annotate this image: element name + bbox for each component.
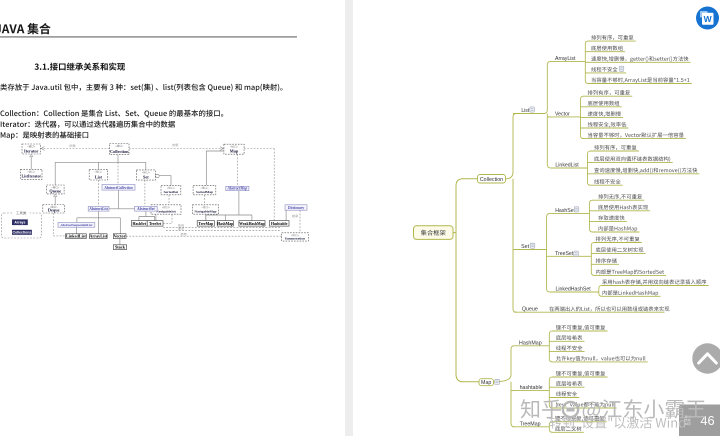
leaf 存取速度快: [598, 215, 624, 220]
page gutter: [345, 0, 353, 436]
svg-text:TreeSet: TreeSet: [149, 222, 162, 226]
edge Vector-Stack: [119, 239, 121, 245]
edge Queue-Deque: [54, 197, 56, 205]
UML abstract class Dictionary: [285, 205, 307, 210]
edge Dictionary..Enumeration dashed: [299, 210, 301, 233]
leaf 速度快,增删慢，gett: [591, 56, 688, 62]
UML interface ListIterator: [21, 169, 42, 179]
leaf 底层使用数组: [588, 101, 620, 106]
svg-text:NavigableMap: NavigableMap: [195, 210, 217, 214]
svg-text:WeakHashMap: WeakHashMap: [239, 222, 264, 226]
UML class WeakHashMap: [239, 221, 265, 227]
svg-text:HashSet: HashSet: [555, 208, 575, 214]
List children connector: [544, 61, 551, 113]
UML abstract class AbstractMap: [226, 186, 249, 190]
svg-text:Enumeration: Enumeration: [285, 237, 305, 241]
leaf 线程不安全: [591, 67, 617, 72]
UML abstract class AbstractList: [88, 206, 109, 211]
svg-text:TreeMap: TreeMap: [198, 222, 213, 226]
svg-text:Queue: Queue: [522, 307, 538, 313]
node Vector: [548, 116, 581, 118]
svg-text:List: List: [521, 108, 529, 114]
svg-text:NavigableSet: NavigableSet: [156, 210, 176, 214]
body line Map: [1, 131, 88, 139]
svg-text:TreeSet: TreeSet: [555, 251, 574, 257]
leaf key、value都不能: [556, 402, 614, 408]
svg-text:Dictionary: Dictionary: [287, 206, 305, 210]
svg-text:Vector: Vector: [555, 111, 570, 117]
svg-text:Set: Set: [521, 244, 529, 250]
UML class TreeMap: [197, 221, 214, 227]
UML legend box: [1, 213, 41, 238]
leaf 采用hash表存储,并用: [602, 279, 706, 284]
svg-text:HashMap: HashMap: [217, 222, 233, 226]
edge Collection..AbstractCollection dashed: [117, 162, 119, 184]
leaf 线程不安全: [556, 345, 582, 350]
UML class HashMap: [217, 221, 233, 227]
page number box: [679, 405, 720, 436]
UML interface Set: [136, 170, 155, 180]
edge Collection..Iterator dashed dependency: [41, 148, 110, 150]
leaf 键不可重复,值可重复: [556, 325, 605, 330]
AbstractMap children bus: [238, 191, 240, 215]
leaf 底层哈希表: [556, 335, 582, 340]
leaf 底层使用二叉树实现: [596, 247, 644, 252]
Set children connector: [547, 213, 551, 249]
edge SortedMap..NavigableMap dashed: [204, 195, 206, 205]
edge Map..AbstractMap dashed: [237, 154, 239, 186]
leaf 底层二叉树: [555, 426, 581, 431]
UML interface Collection: [110, 144, 130, 155]
svg-text:SortedMap: SortedMap: [196, 190, 213, 194]
windows activation watermark: [550, 417, 685, 429]
edge NavigableSet-TreeSet: [155, 214, 157, 220]
leaf 查询速度慢,增删快,ad: [594, 168, 697, 174]
svg-text:SortedSet: SortedSet: [164, 190, 179, 194]
UML abstract class AbstractSequentialList: [58, 223, 95, 228]
leaf 内部是TreeMap的S: [596, 269, 664, 275]
edge List..AbstractList dashed: [97, 180, 99, 206]
svg-text:LinkedHashSet: LinkedHashSet: [556, 287, 592, 293]
TreeMap leaves: [549, 422, 552, 433]
node List: [513, 113, 545, 115]
leaf 排列有序，可重复: [594, 145, 636, 150]
leaf 线程安全: [556, 391, 577, 396]
svg-text:Collections: Collections: [13, 231, 32, 235]
svg-text:LinkedList: LinkedList: [555, 162, 579, 168]
leaf 底层使用双向循环链表数据: [594, 156, 670, 162]
HashMap leaves: [549, 331, 552, 362]
AbstractCollection to AbstractList/AbstractSet: [117, 190, 119, 209]
body line Iterator: [1, 121, 175, 128]
svg-text:Stack: Stack: [115, 244, 126, 249]
svg-text:ListIterator: ListIterator: [21, 175, 41, 179]
leaf 当容量不够时，Vecto: [588, 133, 684, 138]
UML class Stack: [113, 245, 126, 250]
node hashtable: [513, 390, 549, 392]
node TreeSet: [550, 255, 591, 257]
legend Collections: [12, 230, 32, 235]
leaf 底层使用Hash表实现: [598, 205, 648, 210]
UML interface Enumeration: [282, 233, 309, 241]
UML interface Deque: [43, 205, 65, 214]
svg-text:Vector: Vector: [114, 233, 126, 238]
Set lollipop to SortedSet: [156, 174, 159, 177]
edge Map-SortedMap: [206, 151, 224, 185]
edge Map..Hashtable dashed: [244, 148, 274, 150]
UML abstract class AbstractSet: [135, 206, 158, 211]
Collection children bus: [117, 155, 119, 163]
UML interface Queue: [47, 185, 65, 194]
zhihu watermark: [521, 399, 561, 418]
leaf 允许key值为null，: [556, 356, 645, 362]
leaf 内部是HashMap: [599, 226, 638, 232]
edge AbstractSequentialList-LinkedList: [75, 227, 77, 234]
Map children connector: [494, 346, 515, 382]
svg-text:Map: Map: [481, 380, 491, 386]
node LinkedList: [551, 167, 588, 169]
UML interface NavigableMap: [193, 205, 219, 214]
leaf 线程不安全: [594, 179, 620, 184]
UML class Vector: [113, 234, 126, 239]
HashSet leaves: [590, 200, 593, 232]
leaf 排列有序，可重复: [588, 90, 630, 95]
UML class LinkedList: [66, 234, 87, 239]
document title: [0, 23, 51, 34]
svg-text:LinkedList: LinkedList: [66, 233, 86, 238]
UML class Hashtable: [269, 221, 289, 227]
node HashMap: [513, 345, 549, 347]
edge Map..Collection dashed dependency: [129, 148, 224, 150]
node HashSet: [550, 212, 590, 214]
svg-text:Queue: Queue: [49, 188, 61, 193]
edge Dictionary-Hashtable: [285, 210, 287, 220]
title underline: [0, 36, 297, 38]
leaf 键不可重复,值可重复: [555, 416, 604, 421]
edge SortedSet..NavigableSet dashed: [168, 195, 170, 205]
AbstractSet children bus: [145, 211, 147, 216]
usage dashed lines to Enumeration: [163, 226, 281, 228]
svg-text:Iterator: Iterator: [24, 148, 39, 153]
leaf 排列无序,不可重复: [598, 194, 642, 199]
svg-text:TreeMap: TreeMap: [520, 421, 541, 427]
svg-text:HashMap: HashMap: [519, 340, 542, 346]
svg-text:W: W: [704, 14, 713, 24]
section heading: [35, 63, 126, 71]
LinkedList leaves: [588, 151, 591, 185]
legend Arrays: [12, 219, 28, 225]
UML interface SortedSet: [161, 185, 181, 194]
node ArrayList: [551, 60, 586, 62]
leaf 速度快,增删慢: [588, 111, 621, 116]
svg-text:List: List: [95, 174, 103, 179]
UML class ArrayList: [90, 234, 108, 239]
edge TreeSet..NavigableSet hook dashed: [163, 214, 172, 223]
node Map box: [479, 379, 494, 386]
edge Iterator-ListIterator: [30, 157, 32, 169]
node Set: [514, 249, 547, 251]
Collection children connector: [506, 114, 517, 179]
edge Deque..LinkedList dashed: [54, 213, 66, 236]
svg-text:AbstractCollection: AbstractCollection: [103, 186, 132, 190]
body line Collection: [0, 110, 223, 118]
node Queue + leaf: [514, 311, 665, 313]
UML interface Map: [224, 144, 244, 154]
leaf 排列有序，可重复: [591, 35, 633, 40]
Vector leaves: [581, 96, 584, 138]
svg-text:ArrayList: ArrayList: [555, 56, 576, 62]
UML class TreeSet: [147, 221, 163, 227]
scroll-to-top button: [692, 343, 720, 373]
leaf 排列无序,不可重复: [596, 236, 640, 241]
UML class HashSet: [131, 221, 147, 227]
svg-text:hashtable: hashtable: [520, 385, 543, 391]
root node 集合框架: [414, 226, 454, 240]
UML interface NavigableSet: [151, 205, 181, 214]
UML interface SortedMap: [193, 185, 216, 194]
svg-text:ArrayList: ArrayList: [89, 233, 108, 238]
leaf 排序存储: [596, 258, 617, 263]
LinkedHashSet leaves: [599, 286, 602, 297]
body paragraph 1: [0, 84, 282, 92]
hashtable leaves: [549, 377, 552, 408]
AbstractList children bus: [98, 211, 100, 218]
node TreeMap: [513, 426, 549, 428]
svg-text:Hashtable: Hashtable: [271, 222, 288, 226]
svg-text:46: 46: [700, 413, 714, 428]
UML interface List: [89, 169, 107, 180]
leaf 底层使用数组: [591, 46, 623, 51]
svg-text:AbstractSequentialList: AbstractSequentialList: [59, 223, 93, 227]
svg-text:Deque: Deque: [48, 207, 60, 212]
svg-text:HashSet: HashSet: [132, 222, 146, 226]
svg-text:Collection: Collection: [110, 149, 129, 154]
leaf 键不可重复,值可重复: [556, 371, 605, 376]
leaf 内部是LinkedHas: [603, 290, 659, 296]
Word doc icon top right: [696, 7, 719, 30]
svg-text:AbstractList: AbstractList: [88, 207, 108, 211]
edge Set..AbstractSet dashed: [144, 180, 146, 206]
svg-text:Arrays: Arrays: [14, 221, 25, 225]
UML interface Iterator: [22, 144, 41, 154]
UML abstract class AbstractCollection: [102, 185, 135, 191]
svg-text:AbstractSet: AbstractSet: [136, 207, 155, 211]
leaf 当容量不够时,Array: [592, 77, 690, 83]
leaf 线程安全,效率低: [588, 122, 626, 128]
TreeSet leaves: [591, 243, 594, 276]
leaf 底层哈希表: [556, 381, 582, 386]
svg-text:Set: Set: [143, 175, 149, 180]
svg-text:Collection: Collection: [480, 177, 503, 183]
mindmap trunk: [456, 179, 479, 382]
svg-text:AbstractMap: AbstractMap: [227, 187, 248, 191]
root connector: [453, 232, 456, 234]
svg-text:Map: Map: [230, 149, 239, 154]
ArrayList leaves: [585, 41, 588, 83]
edge NavigableMap-TreeMap: [205, 214, 207, 220]
node LinkedHashSet: [550, 291, 599, 293]
node Collection box: [478, 175, 506, 184]
